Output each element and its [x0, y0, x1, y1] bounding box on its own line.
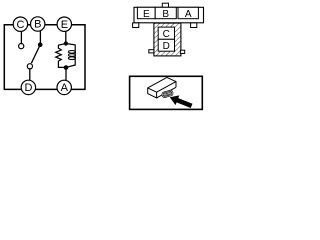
resistor parallel branch [56, 44, 66, 68]
wire from terminal E down to coil node [65, 31, 67, 42]
svg-text:B: B [162, 9, 169, 20]
node switch pivot at B [38, 42, 43, 47]
pin cavity A [178, 7, 198, 20]
relay body isometric view [148, 77, 176, 98]
relay location callout box [130, 76, 203, 109]
terminal E [57, 17, 71, 31]
fixed contact under C [19, 44, 24, 49]
wire box outline of relay internal circuit [4, 25, 85, 90]
terminal C [13, 17, 27, 31]
svg-text:E: E [61, 19, 68, 31]
pin cavity D [158, 39, 174, 52]
svg-text:A: A [185, 9, 192, 20]
svg-text:A: A [61, 82, 69, 94]
mounting tab lower right of housing [191, 23, 197, 28]
terminal D [21, 80, 35, 94]
fixed contact above D [27, 64, 32, 69]
svg-text:C: C [17, 19, 25, 31]
terminal A [57, 80, 71, 94]
switch arm from B pivot toward D contact [31, 45, 40, 64]
node top junction of coil and resistor [64, 41, 68, 45]
wire from coil junction down to terminal A [65, 67, 67, 80]
connector lock tab above pin B [162, 3, 168, 7]
svg-text:C: C [163, 29, 170, 40]
mounting tab lower left of housing [133, 23, 139, 28]
wire from terminal C down to fixed contact [20, 32, 22, 44]
coil L1 relay winding [66, 44, 75, 68]
svg-text:E: E [143, 9, 150, 20]
connector housing top view outer body [134, 7, 204, 22]
connector vertical body hatched [154, 23, 181, 56]
svg-text:D: D [25, 82, 33, 94]
pin cavity C [158, 27, 174, 40]
svg-text:B: B [34, 19, 41, 31]
relay connector socket detail [161, 90, 173, 98]
tab lower right of vertical body [180, 50, 184, 53]
pin cavity B [155, 7, 176, 20]
pin cavity E [137, 7, 155, 20]
arrow pointing to relay [170, 95, 193, 108]
terminal B [31, 17, 45, 31]
node bottom junction of coil and resistor [64, 65, 69, 70]
svg-text:D: D [163, 41, 170, 52]
wire from terminal B down to switch pivot [39, 31, 41, 43]
wire from contact down to terminal D [29, 69, 31, 80]
tab lower left of vertical body [149, 50, 154, 53]
